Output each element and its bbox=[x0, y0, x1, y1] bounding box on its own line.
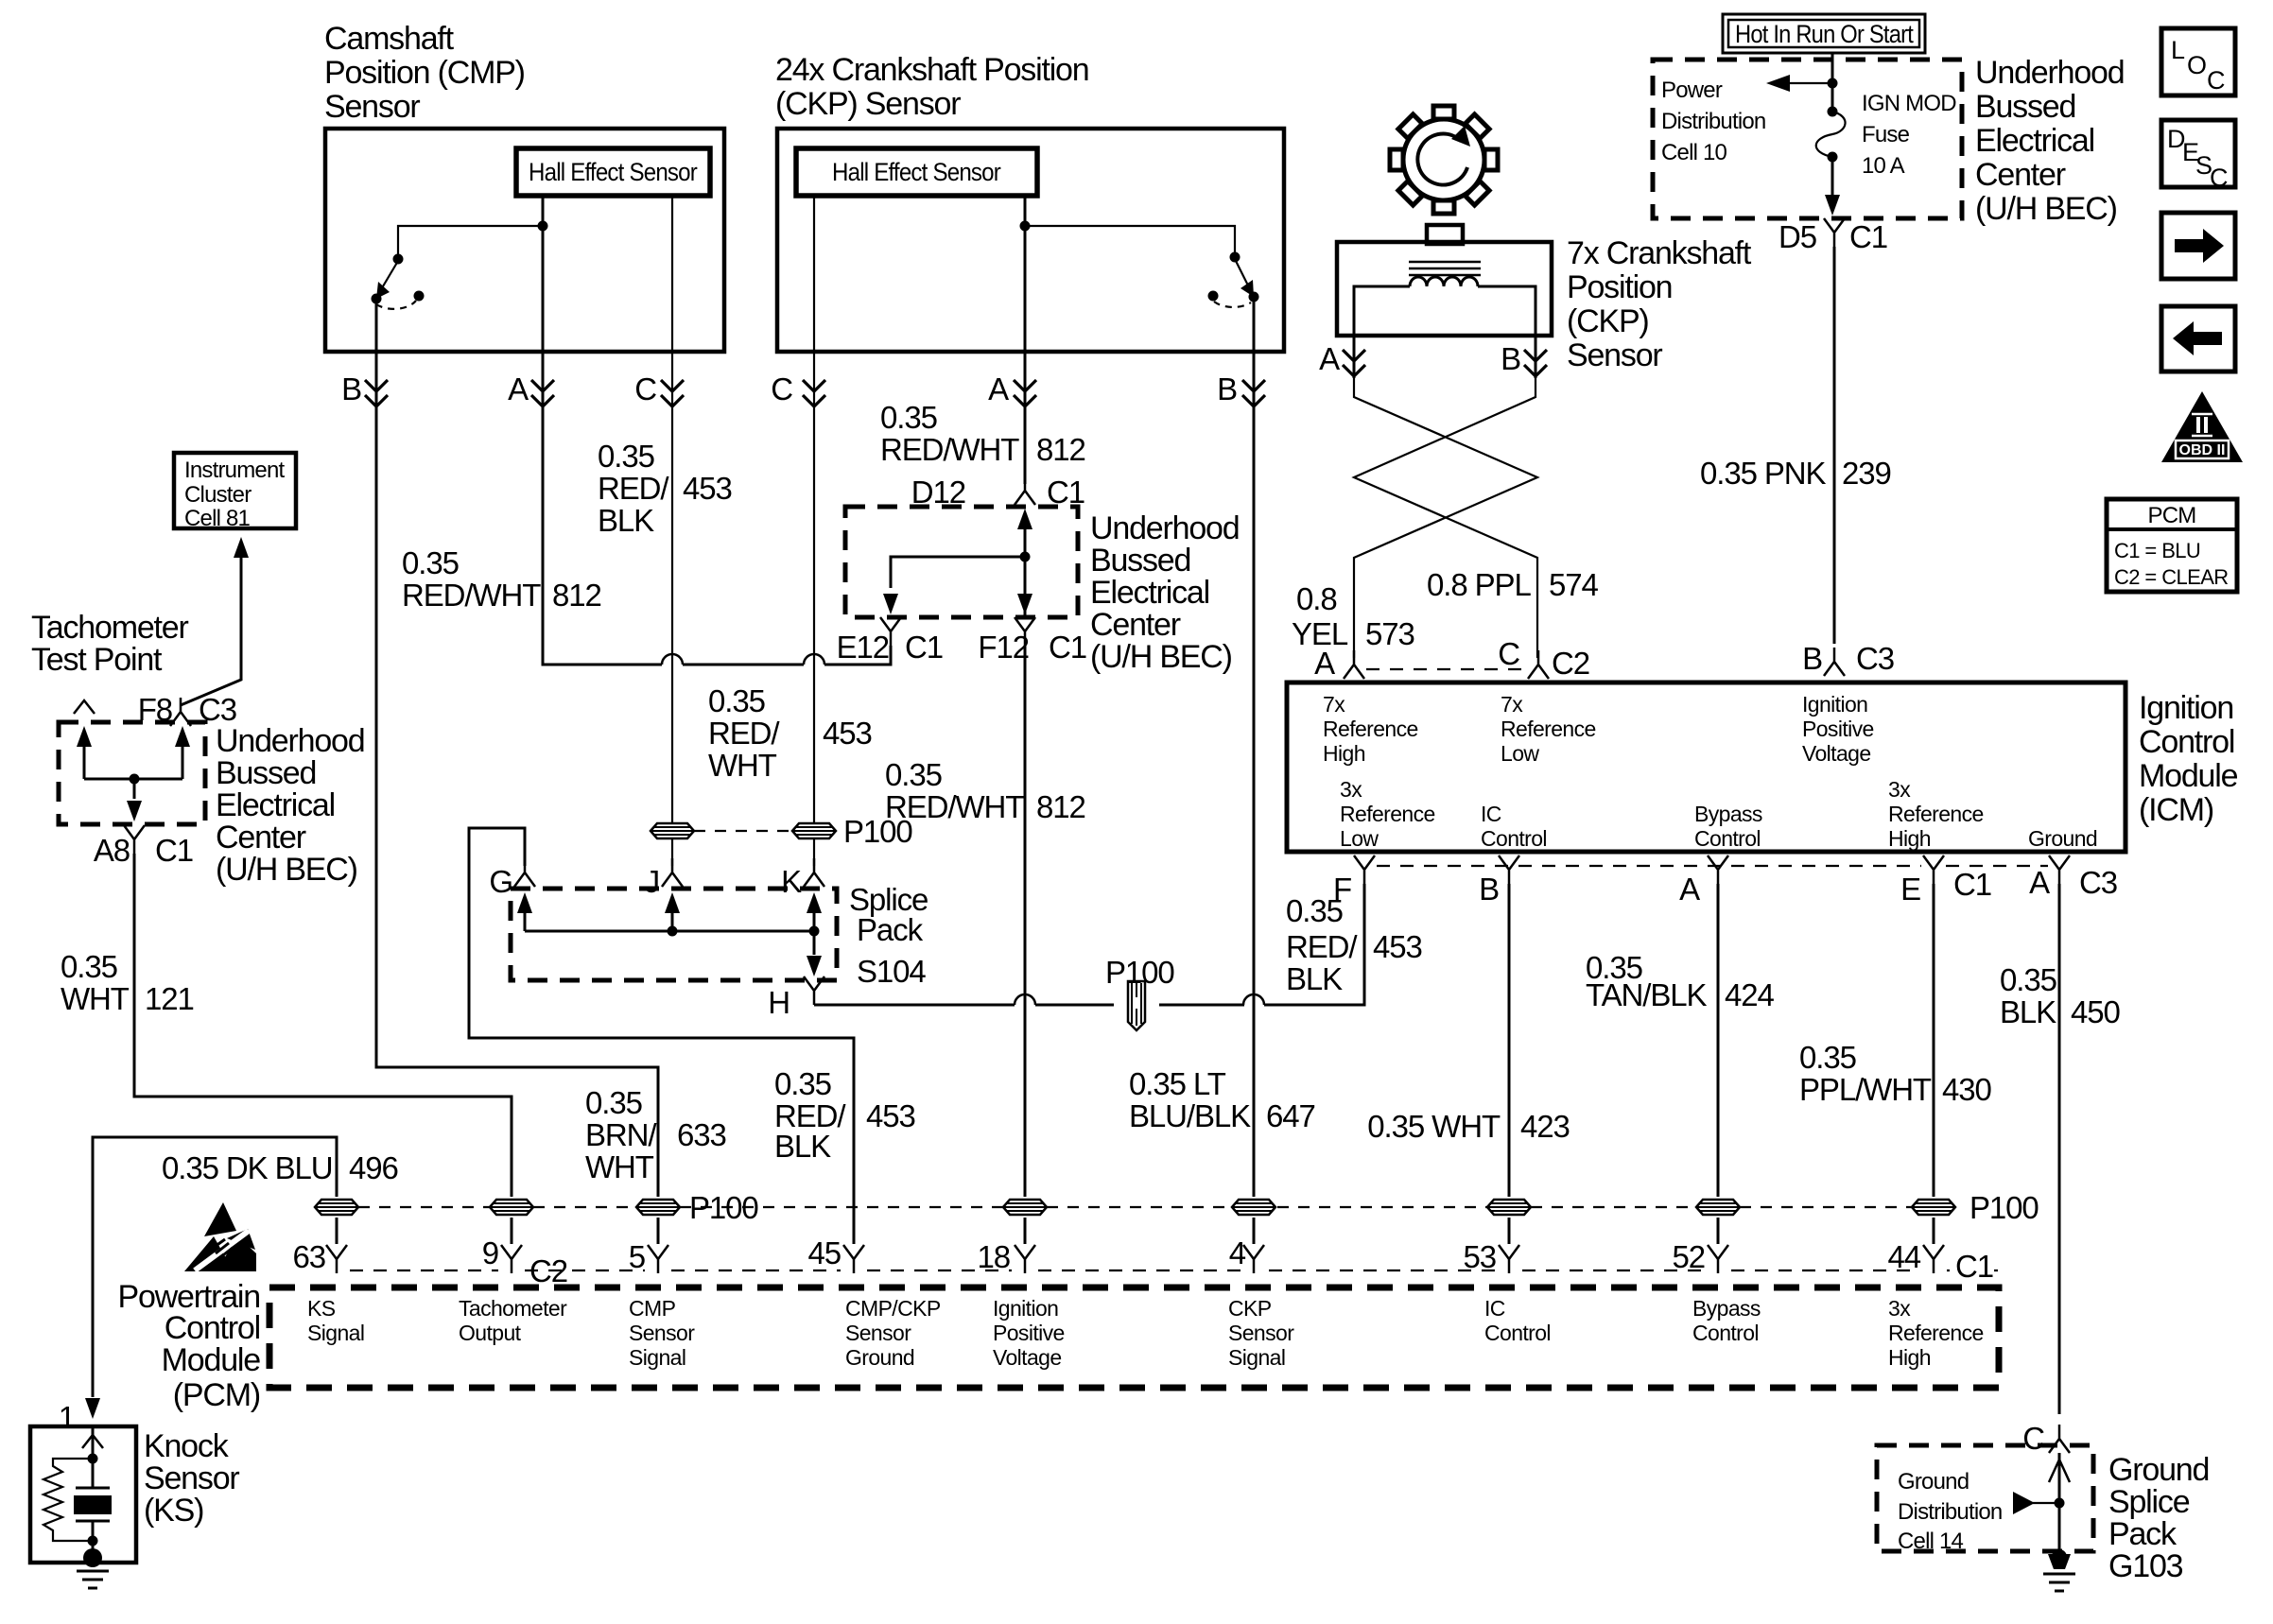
svg-text:Electrical: Electrical bbox=[1090, 575, 1209, 611]
svg-text:A: A bbox=[2029, 865, 2050, 900]
svg-text:Sensor: Sensor bbox=[1567, 337, 1662, 373]
svg-text:C2: C2 bbox=[529, 1253, 567, 1288]
svg-text:24x Crankshaft Position: 24x Crankshaft Position bbox=[775, 52, 1088, 88]
svg-text:Bussed: Bussed bbox=[1090, 543, 1190, 579]
svg-text:Sensor: Sensor bbox=[845, 1321, 911, 1345]
svg-text:Ignition: Ignition bbox=[1802, 692, 1867, 717]
svg-text:P100: P100 bbox=[1105, 955, 1174, 990]
svg-text:633: 633 bbox=[677, 1117, 726, 1152]
svg-text:Underhood: Underhood bbox=[216, 723, 364, 759]
svg-text:239: 239 bbox=[1842, 456, 1891, 491]
svg-text:Control: Control bbox=[1484, 1321, 1551, 1345]
svg-text:Signal: Signal bbox=[307, 1321, 364, 1345]
svg-text:Splice: Splice bbox=[2108, 1484, 2190, 1520]
svg-text:High: High bbox=[1888, 826, 1931, 851]
svg-text:Ignition: Ignition bbox=[993, 1296, 1058, 1321]
svg-text:Camshaft: Camshaft bbox=[324, 21, 455, 57]
svg-text:A: A bbox=[1319, 341, 1340, 376]
svg-text:Reference: Reference bbox=[1340, 802, 1435, 826]
svg-text:A: A bbox=[988, 371, 1009, 406]
svg-text:Reference: Reference bbox=[1888, 1321, 1984, 1345]
svg-text:WHT: WHT bbox=[585, 1149, 654, 1184]
svg-text:C: C bbox=[771, 371, 792, 406]
svg-text:Power: Power bbox=[1661, 78, 1723, 103]
svg-text:Instrument: Instrument bbox=[184, 458, 286, 483]
svg-text:496: 496 bbox=[349, 1150, 398, 1185]
svg-text:3x: 3x bbox=[1888, 777, 1911, 802]
svg-text:5: 5 bbox=[629, 1239, 645, 1274]
svg-text:0.35 PNK: 0.35 PNK bbox=[1700, 456, 1827, 491]
svg-text:Reference: Reference bbox=[1888, 802, 1984, 826]
svg-text:Tachometer: Tachometer bbox=[31, 610, 189, 646]
svg-text:BLK: BLK bbox=[598, 503, 654, 538]
svg-text:BLU/BLK: BLU/BLK bbox=[1129, 1098, 1251, 1133]
svg-text:812: 812 bbox=[1036, 432, 1085, 467]
svg-text:B: B bbox=[341, 371, 361, 406]
svg-text:P100: P100 bbox=[1969, 1190, 2039, 1225]
svg-text:C2 = CLEAR: C2 = CLEAR bbox=[2114, 565, 2229, 589]
svg-text:0.8 PPL: 0.8 PPL bbox=[1427, 567, 1531, 602]
svg-text:0.8: 0.8 bbox=[1296, 581, 1337, 616]
svg-text:BLK: BLK bbox=[2000, 994, 2056, 1029]
svg-text:A: A bbox=[1314, 646, 1335, 681]
svg-text:Center: Center bbox=[1090, 607, 1181, 643]
svg-text:0.35: 0.35 bbox=[880, 400, 937, 435]
svg-text:Reference: Reference bbox=[1323, 717, 1418, 741]
svg-text:Knock: Knock bbox=[144, 1428, 230, 1464]
svg-text:Position (CMP): Position (CMP) bbox=[324, 55, 525, 91]
svg-text:3x: 3x bbox=[1340, 777, 1362, 802]
svg-text:H: H bbox=[768, 985, 789, 1020]
svg-text:45: 45 bbox=[807, 1235, 841, 1270]
svg-text:0.35: 0.35 bbox=[61, 949, 117, 984]
svg-text:KS: KS bbox=[307, 1296, 336, 1321]
svg-text:Tachometer: Tachometer bbox=[459, 1296, 567, 1321]
svg-text:(KS): (KS) bbox=[144, 1493, 203, 1529]
svg-text:Electrical: Electrical bbox=[216, 787, 335, 823]
svg-text:B: B bbox=[1217, 371, 1237, 406]
svg-text:0.35 DK BLU: 0.35 DK BLU bbox=[162, 1150, 333, 1185]
svg-text:Cell 10: Cell 10 bbox=[1661, 140, 1727, 165]
svg-text:10 A: 10 A bbox=[1862, 153, 1905, 179]
svg-text:Bussed: Bussed bbox=[1975, 89, 2075, 125]
svg-text:52: 52 bbox=[1672, 1239, 1705, 1274]
svg-text:Sensor: Sensor bbox=[324, 89, 420, 125]
svg-text:Positive: Positive bbox=[1802, 717, 1874, 741]
svg-text:0.35: 0.35 bbox=[1799, 1040, 1856, 1075]
svg-text:Cell 14: Cell 14 bbox=[1898, 1529, 1964, 1554]
svg-text:G103: G103 bbox=[2108, 1548, 2183, 1584]
svg-text:812: 812 bbox=[552, 578, 601, 613]
svg-text:L: L bbox=[2171, 36, 2185, 64]
svg-text:D12: D12 bbox=[911, 475, 965, 510]
svg-text:PCM: PCM bbox=[2148, 503, 2196, 528]
svg-text:A: A bbox=[508, 371, 529, 406]
svg-text:E12: E12 bbox=[837, 630, 889, 665]
svg-text:C3: C3 bbox=[2079, 865, 2117, 900]
svg-text:1: 1 bbox=[59, 1400, 75, 1435]
svg-text:0.35 LT: 0.35 LT bbox=[1129, 1066, 1226, 1101]
svg-text:(U/H BEC): (U/H BEC) bbox=[1975, 191, 2117, 227]
svg-text:Control: Control bbox=[1481, 826, 1547, 851]
svg-text:Hot In Run Or Start: Hot In Run Or Start bbox=[1735, 20, 1914, 48]
svg-text:C3: C3 bbox=[1856, 641, 1894, 676]
svg-text:Module: Module bbox=[2139, 758, 2238, 794]
svg-text:IC: IC bbox=[1484, 1296, 1505, 1321]
svg-text:453: 453 bbox=[1373, 929, 1422, 964]
svg-text:Control: Control bbox=[1692, 1321, 1759, 1345]
svg-text:Sensor: Sensor bbox=[629, 1321, 695, 1345]
svg-text:0.35: 0.35 bbox=[1286, 893, 1343, 928]
svg-text:WHT: WHT bbox=[708, 748, 777, 783]
svg-text:Bypass: Bypass bbox=[1692, 1296, 1761, 1321]
svg-text:Sensor: Sensor bbox=[144, 1460, 239, 1496]
svg-text:K: K bbox=[781, 864, 802, 899]
svg-text:Control: Control bbox=[2139, 724, 2234, 760]
svg-text:Cluster: Cluster bbox=[184, 482, 252, 508]
svg-text:Ground: Ground bbox=[2028, 826, 2097, 851]
svg-text:B: B bbox=[1802, 641, 1822, 676]
svg-text:Fuse: Fuse bbox=[1862, 122, 1910, 147]
svg-text:High: High bbox=[1888, 1345, 1931, 1370]
svg-text:C1: C1 bbox=[905, 630, 943, 665]
svg-text:Signal: Signal bbox=[629, 1345, 685, 1370]
svg-text:C: C bbox=[634, 371, 656, 406]
svg-text:WHT: WHT bbox=[61, 981, 130, 1016]
svg-text:IC: IC bbox=[1481, 802, 1501, 826]
svg-text:Ground: Ground bbox=[2108, 1452, 2209, 1488]
svg-text:0.35 WHT: 0.35 WHT bbox=[1367, 1109, 1501, 1144]
svg-text:CMP/CKP: CMP/CKP bbox=[845, 1296, 941, 1321]
svg-text:0.35: 0.35 bbox=[598, 439, 654, 474]
svg-text:High: High bbox=[1323, 741, 1365, 766]
svg-text:J: J bbox=[645, 864, 659, 899]
svg-text:Low: Low bbox=[1340, 826, 1379, 851]
svg-text:PPL/WHT: PPL/WHT bbox=[1799, 1072, 1932, 1107]
svg-text:C1: C1 bbox=[1953, 867, 1991, 902]
svg-text:Electrical: Electrical bbox=[1975, 123, 2094, 159]
svg-text:Pack: Pack bbox=[2108, 1516, 2178, 1552]
svg-text:Reference: Reference bbox=[1501, 717, 1596, 741]
svg-text:C2: C2 bbox=[1552, 646, 1589, 681]
svg-text:Control: Control bbox=[1694, 826, 1761, 851]
svg-text:P100: P100 bbox=[689, 1190, 758, 1225]
svg-text:453: 453 bbox=[683, 471, 732, 506]
svg-text:IGN MOD: IGN MOD bbox=[1862, 91, 1956, 116]
svg-text:A8: A8 bbox=[94, 833, 130, 868]
svg-text:Bypass: Bypass bbox=[1694, 802, 1762, 826]
svg-text:423: 423 bbox=[1520, 1109, 1570, 1144]
svg-text:C: C bbox=[2210, 164, 2228, 192]
svg-text:0.35: 0.35 bbox=[2000, 962, 2056, 997]
svg-text:C1 = BLU: C1 = BLU bbox=[2114, 539, 2200, 562]
svg-text:0.35: 0.35 bbox=[885, 757, 942, 792]
svg-text:B: B bbox=[1501, 341, 1520, 376]
svg-text:Control: Control bbox=[165, 1310, 260, 1346]
svg-text:Center: Center bbox=[1975, 157, 2066, 193]
svg-text:RED/WHT: RED/WHT bbox=[880, 432, 1019, 467]
svg-text:Distribution: Distribution bbox=[1661, 109, 1765, 134]
svg-text:Sensor: Sensor bbox=[1228, 1321, 1294, 1345]
svg-text:RED/WHT: RED/WHT bbox=[402, 578, 541, 613]
svg-text:Voltage: Voltage bbox=[1802, 741, 1871, 766]
svg-text:Signal: Signal bbox=[1228, 1345, 1285, 1370]
svg-text:Pack: Pack bbox=[857, 912, 924, 947]
svg-text:RED/: RED/ bbox=[708, 716, 780, 751]
svg-text:3x: 3x bbox=[1888, 1296, 1911, 1321]
svg-text:Underhood: Underhood bbox=[1975, 55, 2124, 91]
svg-text:RED/: RED/ bbox=[1286, 929, 1358, 964]
svg-text:C1: C1 bbox=[1047, 475, 1084, 510]
svg-text:Voltage: Voltage bbox=[993, 1345, 1062, 1370]
svg-text:424: 424 bbox=[1725, 977, 1775, 1012]
svg-text:0.35: 0.35 bbox=[585, 1085, 642, 1120]
svg-text:0.35: 0.35 bbox=[774, 1066, 831, 1101]
svg-text:BLK: BLK bbox=[1286, 961, 1343, 996]
svg-text:C1: C1 bbox=[1955, 1249, 1993, 1284]
svg-text:63: 63 bbox=[292, 1239, 325, 1274]
svg-text:430: 430 bbox=[1942, 1072, 1992, 1107]
svg-text:S104: S104 bbox=[857, 954, 926, 989]
svg-text:OBD II: OBD II bbox=[2179, 442, 2226, 458]
svg-text:453: 453 bbox=[866, 1098, 915, 1133]
svg-text:Cell 81: Cell 81 bbox=[184, 506, 251, 531]
svg-text:C1: C1 bbox=[155, 833, 193, 868]
svg-text:RED/: RED/ bbox=[598, 471, 669, 506]
svg-text:Test Point: Test Point bbox=[31, 642, 163, 678]
svg-text:0.35: 0.35 bbox=[708, 683, 765, 718]
svg-text:CKP: CKP bbox=[1228, 1296, 1272, 1321]
svg-text:TAN/BLK: TAN/BLK bbox=[1586, 977, 1707, 1012]
svg-text:(CKP): (CKP) bbox=[1567, 303, 1649, 339]
svg-text:4: 4 bbox=[1229, 1235, 1246, 1270]
svg-text:7x: 7x bbox=[1501, 692, 1523, 717]
svg-text:450: 450 bbox=[2071, 994, 2121, 1029]
svg-text:53: 53 bbox=[1463, 1239, 1496, 1274]
svg-text:P100: P100 bbox=[843, 814, 912, 849]
svg-text:O: O bbox=[2187, 51, 2206, 79]
svg-text:B: B bbox=[1479, 872, 1499, 907]
svg-text:Output: Output bbox=[459, 1321, 522, 1345]
svg-text:18: 18 bbox=[977, 1239, 1010, 1274]
svg-text:D5: D5 bbox=[1778, 219, 1816, 254]
svg-text:573: 573 bbox=[1365, 616, 1414, 651]
svg-text:7x: 7x bbox=[1323, 692, 1345, 717]
svg-text:44: 44 bbox=[1887, 1239, 1920, 1274]
svg-text:7x Crankshaft: 7x Crankshaft bbox=[1567, 235, 1752, 271]
svg-text:C1: C1 bbox=[1849, 219, 1887, 254]
svg-text:9: 9 bbox=[482, 1235, 498, 1270]
svg-text:(U/H BEC): (U/H BEC) bbox=[216, 852, 357, 888]
svg-text:121: 121 bbox=[145, 981, 194, 1016]
svg-text:Low: Low bbox=[1501, 741, 1539, 766]
svg-text:Ignition: Ignition bbox=[2139, 690, 2233, 726]
svg-text:Ground: Ground bbox=[1898, 1469, 1969, 1494]
svg-text:(CKP) Sensor: (CKP) Sensor bbox=[775, 86, 961, 122]
svg-text:Distribution: Distribution bbox=[1898, 1499, 2002, 1525]
svg-text:Module: Module bbox=[162, 1342, 261, 1378]
svg-text:(ICM): (ICM) bbox=[2139, 792, 2213, 828]
svg-text:Hall Effect Sensor: Hall Effect Sensor bbox=[832, 158, 1001, 186]
svg-text:CMP: CMP bbox=[629, 1296, 676, 1321]
svg-text:0.35: 0.35 bbox=[402, 545, 459, 580]
svg-text:574: 574 bbox=[1549, 567, 1599, 602]
svg-text:647: 647 bbox=[1266, 1098, 1315, 1133]
svg-text:453: 453 bbox=[823, 716, 872, 751]
svg-text:Position: Position bbox=[1567, 269, 1672, 305]
svg-text:(U/H BEC): (U/H BEC) bbox=[1090, 639, 1232, 675]
svg-text:F12: F12 bbox=[978, 630, 1029, 665]
svg-text:C: C bbox=[1498, 636, 1519, 671]
svg-text:Hall Effect Sensor: Hall Effect Sensor bbox=[529, 158, 698, 186]
svg-text:BRN/: BRN/ bbox=[585, 1117, 657, 1152]
svg-text:A: A bbox=[1679, 872, 1700, 907]
svg-text:Center: Center bbox=[216, 820, 306, 855]
svg-text:G: G bbox=[489, 864, 512, 899]
svg-text:(PCM): (PCM) bbox=[173, 1377, 260, 1413]
svg-text:Underhood: Underhood bbox=[1090, 510, 1239, 546]
svg-text:Ground: Ground bbox=[845, 1345, 914, 1370]
svg-text:BLK: BLK bbox=[774, 1129, 831, 1164]
svg-text:812: 812 bbox=[1036, 789, 1085, 824]
svg-text:E: E bbox=[1900, 872, 1920, 907]
svg-text:C1: C1 bbox=[1049, 630, 1086, 665]
svg-text:C: C bbox=[2022, 1421, 2044, 1456]
svg-text:Bussed: Bussed bbox=[216, 755, 316, 791]
svg-text:Positive: Positive bbox=[993, 1321, 1065, 1345]
svg-text:C: C bbox=[2207, 66, 2225, 95]
